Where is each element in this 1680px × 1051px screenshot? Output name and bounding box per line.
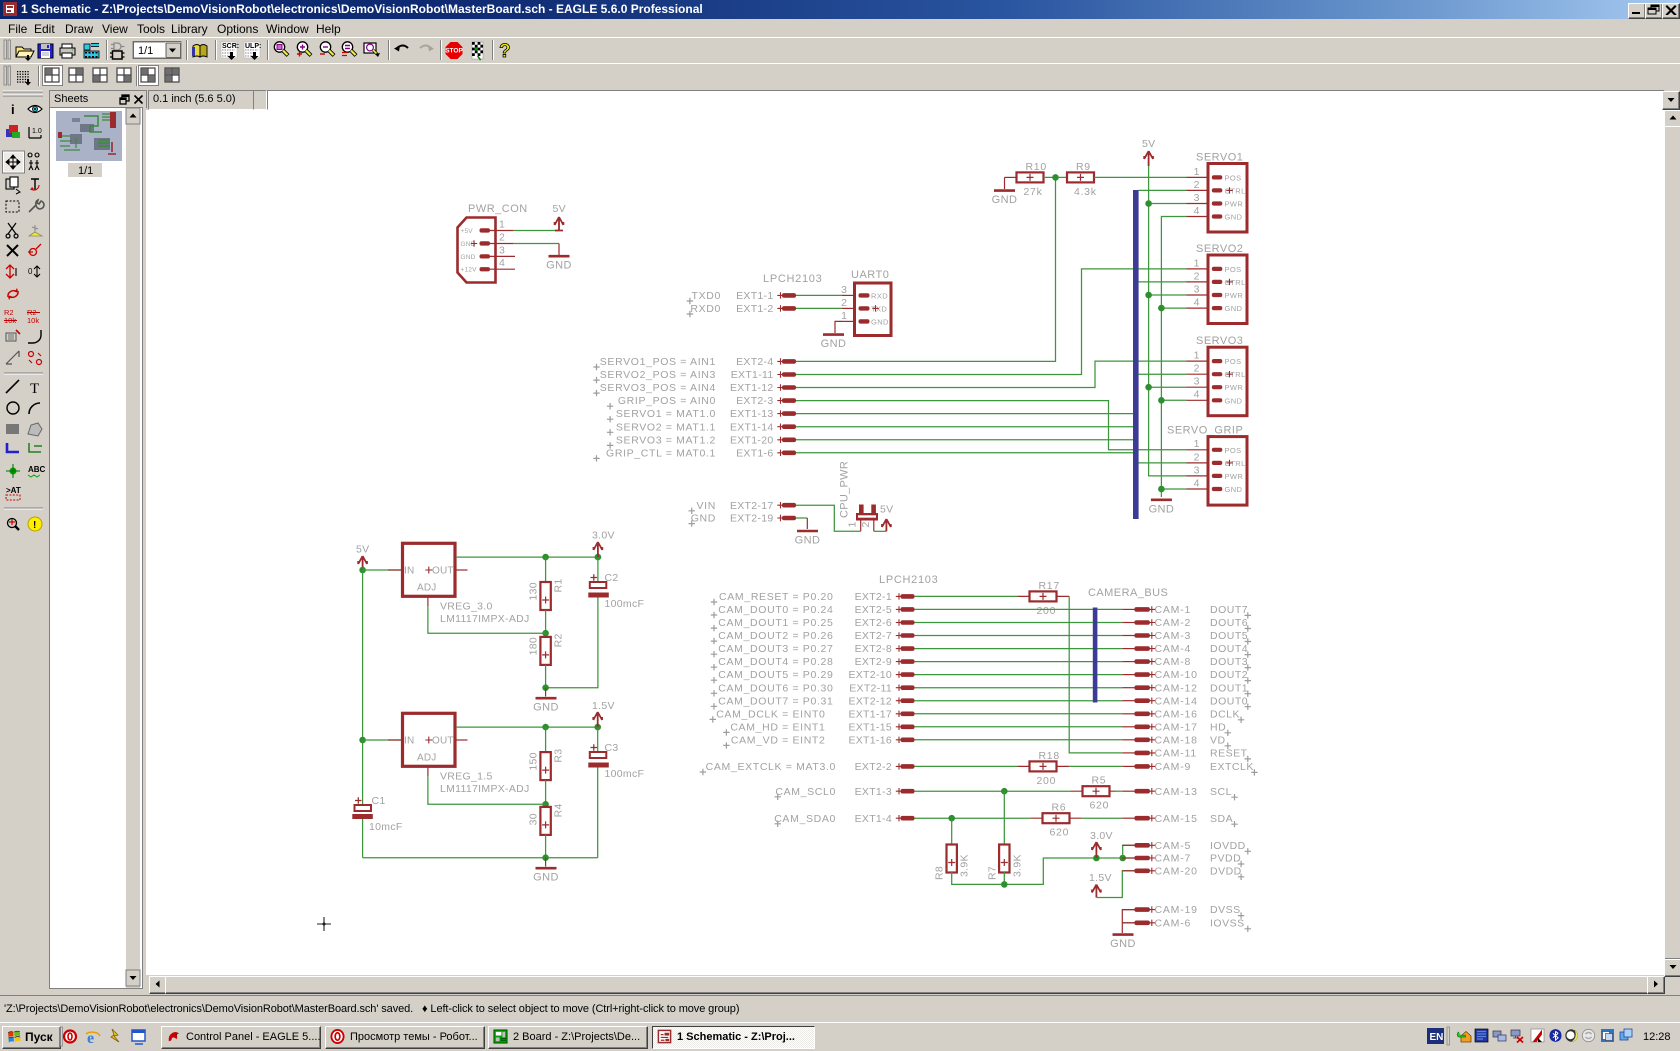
wire camera data row 7 xyxy=(915,687,1123,689)
svg-text:CAM_DOUT0 = P0.24: CAM_DOUT0 = P0.24 xyxy=(718,604,833,616)
wire 5V to SERVO3 PWR xyxy=(1149,386,1187,388)
junction xyxy=(1158,305,1165,312)
junction R3 top xyxy=(542,724,549,731)
svg-text:CAM_SCL0: CAM_SCL0 xyxy=(775,786,836,798)
menu bar xyxy=(0,19,1680,37)
svg-text:SCR:: SCR: xyxy=(222,43,239,50)
svg-text:C1: C1 xyxy=(372,795,386,807)
svg-text:1/1: 1/1 xyxy=(78,165,93,177)
supply 5V (PWR_CON) xyxy=(553,203,566,231)
svg-text:CAM-10: CAM-10 xyxy=(1155,669,1198,681)
PWR_CON pin 3 (GND) xyxy=(461,244,516,260)
svg-text:CPU_PWR: CPU_PWR xyxy=(839,461,851,518)
svg-text:DOUT1: DOUT1 xyxy=(1210,682,1248,694)
svg-text:EXT2-1: EXT2-1 xyxy=(855,591,892,603)
pin CAM-6 (IOVSS) xyxy=(1122,917,1251,932)
svg-text:SERVO3_POS = AIN4: SERVO3_POS = AIN4 xyxy=(600,382,716,394)
pin CAM-5 (IOVDD) xyxy=(1122,840,1251,855)
wire camera data row 9 xyxy=(915,713,1123,715)
wire R17 to CAM-11 RESET xyxy=(1069,596,1122,753)
pin CAM-19 (DVSS) xyxy=(1122,904,1244,919)
svg-text:27k: 27k xyxy=(1024,186,1043,198)
svg-text:620: 620 xyxy=(1090,800,1110,812)
svg-text:PVDD: PVDD xyxy=(1210,853,1241,865)
ground xyxy=(533,698,559,714)
net label TXD0 / pin EXT1-1 xyxy=(687,290,796,304)
svg-text:3: 3 xyxy=(841,284,847,296)
wire SDA to R8 xyxy=(951,818,953,844)
pin CAM-9 (EXTCLK) xyxy=(1122,761,1257,776)
ground (CPU_PWR) xyxy=(795,531,821,547)
svg-text:POS: POS xyxy=(1225,265,1242,274)
svg-text:?: ? xyxy=(499,41,511,62)
svg-text:1: 1 xyxy=(1194,350,1200,362)
svg-text:C3: C3 xyxy=(605,742,619,754)
svg-text:+5V: +5V xyxy=(461,228,474,235)
wire SERVO3_POS xyxy=(796,361,1187,387)
svg-text:PWR: PWR xyxy=(1225,200,1244,209)
svg-text:4: 4 xyxy=(499,257,505,269)
supply 3.0V (camera) xyxy=(1090,830,1113,858)
wire bus to SERVO2 CTRL xyxy=(1139,281,1187,283)
wire R6 pin stubs xyxy=(1031,817,1082,819)
wire to R3 xyxy=(545,727,547,752)
svg-text:2: 2 xyxy=(841,297,847,309)
junction R10/R9 xyxy=(1052,174,1059,181)
svg-text:180: 180 xyxy=(528,637,540,655)
svg-text:EXT1-17: EXT1-17 xyxy=(848,708,892,720)
ground (PWR_CON) xyxy=(558,244,560,256)
supply 5V (servo rail) xyxy=(1142,138,1155,166)
wire R3 to R4 xyxy=(545,780,547,807)
svg-text:30: 30 xyxy=(528,813,540,825)
svg-text:SERVO2: SERVO2 xyxy=(1196,243,1243,255)
svg-text:1: 1 xyxy=(1194,257,1200,269)
svg-text:+12V: +12V xyxy=(461,267,478,274)
svg-text:0: 0 xyxy=(28,267,33,276)
svg-text:T: T xyxy=(30,381,39,397)
resistor R10 xyxy=(1017,161,1047,198)
wire bottom return rail xyxy=(363,768,598,858)
supply 3.0V (regulator) xyxy=(592,530,615,558)
wire SERVO2 MAT1.1 to bus xyxy=(796,426,1133,428)
supply 5V (regulators) xyxy=(356,544,369,571)
svg-text:CAM_EXTCLK = MAT3.0: CAM_EXTCLK = MAT3.0 xyxy=(706,761,836,773)
wire ADJ feedback (VREG_3.0) xyxy=(428,606,546,633)
svg-text:STOP: STOP xyxy=(445,48,463,55)
svg-text:DOUT6: DOUT6 xyxy=(1210,617,1248,629)
svg-text:1: 1 xyxy=(1194,166,1200,178)
resistor R6 xyxy=(1043,802,1070,839)
svg-text:OUT: OUT xyxy=(432,566,454,577)
pin CAM-20 (DVDD) xyxy=(1122,865,1244,880)
svg-text:C2: C2 xyxy=(605,572,619,584)
wire camera data row 2 xyxy=(915,622,1123,624)
wire to R1 xyxy=(545,557,547,582)
svg-text:CAM_HD = EINT1: CAM_HD = EINT1 xyxy=(730,721,825,733)
cursor crosshair xyxy=(317,917,331,931)
net label SERVO3_POS = AIN4 / pin EXT1-12 xyxy=(593,382,796,396)
svg-text:SCL: SCL xyxy=(1210,786,1232,798)
connector PWR_CON xyxy=(458,203,528,283)
svg-text:3.9K: 3.9K xyxy=(1011,854,1023,877)
net label SERVO1_POS = AIN1 / pin EXT2-4 xyxy=(593,356,796,370)
svg-text:LM1117IMPX-ADJ: LM1117IMPX-ADJ xyxy=(440,613,530,625)
svg-text:UART0: UART0 xyxy=(851,269,889,281)
net label CAM_RESET = P0.20 / pin EXT2-1 xyxy=(711,591,915,605)
wire RXD0 xyxy=(796,307,842,309)
svg-text:CAM-2: CAM-2 xyxy=(1155,617,1192,629)
svg-text:EXT2-4: EXT2-4 xyxy=(736,356,773,368)
supply 5V (CPU_PWR) xyxy=(880,504,893,532)
net label SERVO2 = MAT1.1 / pin EXT1-14 xyxy=(607,421,796,435)
svg-text:130: 130 xyxy=(528,582,540,600)
svg-text:VREG_1.5: VREG_1.5 xyxy=(440,770,493,782)
svg-text:VD: VD xyxy=(1210,734,1226,746)
wire EXT2-2 to R18 xyxy=(915,765,1018,767)
svg-text:GRIP_CTL = MAT0.1: GRIP_CTL = MAT0.1 xyxy=(606,447,716,459)
svg-text:EXT2-11: EXT2-11 xyxy=(849,682,892,694)
wire SERVO1_POS xyxy=(796,177,1056,361)
svg-text:CAM-1: CAM-1 xyxy=(1155,604,1192,616)
svg-text:CAM-13: CAM-13 xyxy=(1155,786,1198,798)
ground (servo rail) xyxy=(1149,500,1175,516)
pin CAM-2 (DOUT6) xyxy=(1122,617,1251,632)
svg-text:CAM_DOUT2 = P0.26: CAM_DOUT2 = P0.26 xyxy=(718,630,833,642)
svg-text:RXD: RXD xyxy=(871,291,888,300)
svg-text:150: 150 xyxy=(528,752,540,770)
junction IOVDD/PVDD xyxy=(1119,855,1126,862)
svg-text:EXT1-13: EXT1-13 xyxy=(730,408,774,420)
svg-text:CAM_DOUT1 = P0.25: CAM_DOUT1 = P0.25 xyxy=(718,617,833,629)
wire SERVO3 MAT1.2 to bus xyxy=(796,439,1133,441)
junction R1 top xyxy=(542,554,549,561)
wire R18 pin stubs xyxy=(1018,765,1070,767)
net label SERVO2_POS = AIN3 / pin EXT1-11 xyxy=(593,369,796,383)
svg-text:GND: GND xyxy=(1225,396,1243,405)
svg-text:EXT2-8: EXT2-8 xyxy=(855,643,892,655)
net label SERVO1 = MAT1.0 / pin EXT1-13 xyxy=(607,408,796,422)
wire R2 bottom / C2 return xyxy=(546,598,598,688)
wire camera data row 4 xyxy=(915,648,1123,650)
net label RXD0 / pin EXT1-2 xyxy=(687,303,796,317)
wire +5V to 5V supply xyxy=(513,230,559,232)
canvas top bar xyxy=(148,90,257,110)
wire EXT2-19 to ground xyxy=(796,517,807,519)
junction GND (lower) xyxy=(542,854,549,861)
wire R10-R9 junction xyxy=(1044,176,1068,178)
svg-text:POS: POS xyxy=(1225,173,1242,182)
wire EXT2-1 to R17 xyxy=(915,595,1018,597)
svg-text:EXTCLK: EXTCLK xyxy=(1210,761,1254,773)
svg-text:2: 2 xyxy=(1194,363,1200,375)
wire GND to R10 xyxy=(1005,176,1017,178)
wire GRIP_CTL MAT0.1 to bus xyxy=(796,452,1133,454)
svg-text:4: 4 xyxy=(1194,477,1200,489)
pin CAM-14 (DOUT0) xyxy=(1122,695,1251,710)
junction xyxy=(1158,397,1165,404)
svg-text:EXT2-7: EXT2-7 xyxy=(855,630,892,642)
net label CAM_DOUT7 = P0.31 / pin EXT2-12 xyxy=(711,695,915,709)
connector SERVO_GRIP xyxy=(1167,425,1247,506)
wire ADJ feedback (VREG_1.5) xyxy=(428,776,546,804)
svg-text:2: 2 xyxy=(499,232,505,244)
svg-text:12:28: 12:28 xyxy=(1643,1031,1671,1043)
junction xyxy=(1145,292,1152,299)
wire R6 to CAM-15 xyxy=(1082,817,1123,819)
title bar xyxy=(0,0,1680,19)
svg-text:EXT1-3: EXT1-3 xyxy=(855,786,892,798)
sheets panel xyxy=(47,89,144,993)
left tool palette xyxy=(0,87,47,995)
svg-text:5V: 5V xyxy=(553,203,566,215)
wire VIN to CPU_PWR pin1 xyxy=(796,505,861,531)
svg-text:EXT1-16: EXT1-16 xyxy=(848,734,892,746)
svg-text:GND: GND xyxy=(1110,938,1136,950)
UART0 pin 3 (RXD) xyxy=(841,284,888,301)
resistor R1 xyxy=(528,578,565,610)
resistor R17 xyxy=(1030,580,1060,617)
pin CAM-7 (PVDD) xyxy=(1122,853,1244,868)
svg-text:3: 3 xyxy=(1194,283,1200,295)
connector UART0 xyxy=(851,269,891,336)
junction C3/1.5V xyxy=(594,724,601,731)
net label CAM_DOUT3 = P0.27 / pin EXT2-8 xyxy=(711,643,915,657)
svg-text:OUT: OUT xyxy=(432,736,454,747)
UART0 GND pin wire to ground xyxy=(835,321,842,333)
bus (servo MAT bus) xyxy=(1133,190,1139,519)
wire R17 pin stubs xyxy=(1018,595,1070,597)
wire SERVO2_POS xyxy=(796,269,1187,375)
svg-text:EN: EN xyxy=(1430,1032,1444,1043)
svg-text:GND: GND xyxy=(533,702,559,714)
supply 1.5V (regulator) xyxy=(592,700,615,727)
net label CAM_DOUT1 = P0.25 / pin EXT2-6 xyxy=(711,617,915,631)
net label CAM_SDA0 / pin EXT1-4 xyxy=(774,813,914,827)
svg-text:IN: IN xyxy=(404,566,414,577)
svg-text:2: 2 xyxy=(1194,179,1200,191)
net label CAM_VD = EINT2 / pin EXT1-16 xyxy=(723,734,914,748)
net label CAM_DOUT2 = P0.26 / pin EXT2-7 xyxy=(711,630,915,644)
svg-text:200: 200 xyxy=(1037,775,1057,787)
pin CAM-1 (DOUT7) xyxy=(1122,604,1251,619)
wire GND to SERVO3 GND xyxy=(1161,399,1186,401)
svg-text:100mcF: 100mcF xyxy=(605,768,645,780)
svg-text:RESET: RESET xyxy=(1210,748,1248,760)
pin CAM-16 (DCLK) xyxy=(1122,708,1244,723)
wire DVSS/IOVSS to ground xyxy=(1122,910,1134,933)
net label CAM_DOUT0 = P0.24 / pin EXT2-5 xyxy=(711,604,915,618)
wire 5V to SERVO2 PWR xyxy=(1149,294,1187,296)
svg-text:R1: R1 xyxy=(553,578,565,592)
capacitor C3 xyxy=(588,727,644,780)
connector SERVO3 xyxy=(1187,335,1248,416)
junction SCL/R7 xyxy=(1001,788,1008,795)
svg-text:620: 620 xyxy=(1050,827,1070,839)
wire 1.5V to DVDD xyxy=(1096,871,1134,898)
svg-text:>AT: >AT xyxy=(6,486,21,495)
svg-text:3: 3 xyxy=(499,244,505,256)
net label GRIP_POS = AIN0 / pin EXT2-3 xyxy=(607,395,796,409)
svg-text:CAM-17: CAM-17 xyxy=(1155,721,1198,733)
svg-text:10k: 10k xyxy=(27,316,39,325)
svg-text:CAM_DCLK = EINT0: CAM_DCLK = EINT0 xyxy=(716,708,825,720)
svg-text:IN: IN xyxy=(404,736,414,747)
wire servo GND rail xyxy=(1161,217,1186,498)
connector SERVO1 xyxy=(1187,152,1248,233)
svg-text:SERVO_GRIP: SERVO_GRIP xyxy=(1167,425,1243,437)
svg-text:SERVO3 = MAT1.2: SERVO3 = MAT1.2 xyxy=(616,434,716,446)
svg-text:SDA: SDA xyxy=(1210,813,1233,825)
svg-text:3: 3 xyxy=(1194,192,1200,204)
svg-text:DOUT3: DOUT3 xyxy=(1210,656,1248,668)
wire VREG_1.5 OUT to 1.5V xyxy=(456,726,598,728)
svg-text:CAM-5: CAM-5 xyxy=(1155,840,1192,852)
status bar xyxy=(0,995,1680,1023)
wire R5 pin stubs xyxy=(1071,790,1116,792)
pin CAM-8 (DOUT3) xyxy=(1122,656,1251,671)
net label SERVO3 = MAT1.2 / pin EXT1-20 xyxy=(607,434,796,448)
svg-text:GND: GND xyxy=(992,194,1018,206)
svg-text:CAM-11: CAM-11 xyxy=(1155,748,1198,760)
svg-text:EXT1-1: EXT1-1 xyxy=(736,290,773,302)
net label GND / pin EXT2-19 xyxy=(689,513,797,527)
svg-text:EXT1-20: EXT1-20 xyxy=(730,434,774,446)
svg-text:1.5V: 1.5V xyxy=(592,700,615,712)
svg-text:!: ! xyxy=(33,520,36,531)
toolbar row 1 xyxy=(0,37,1680,64)
svg-text:R8: R8 xyxy=(934,866,946,880)
svg-text:5V: 5V xyxy=(880,504,893,516)
wire camera data row 1 xyxy=(915,608,1123,610)
svg-text:GND: GND xyxy=(461,254,476,261)
pin CAM-15 (SDA) xyxy=(1122,813,1237,828)
net label GRIP_CTL = MAT0.1 / pin EXT1-6 xyxy=(593,447,796,461)
svg-text:POS: POS xyxy=(1225,357,1242,366)
svg-text:4: 4 xyxy=(1194,297,1200,309)
svg-text:CAM-7: CAM-7 xyxy=(1155,853,1192,865)
svg-text:ULP:: ULP: xyxy=(245,43,261,50)
svg-text:R6: R6 xyxy=(1052,802,1067,814)
resistor R2 xyxy=(528,633,565,665)
svg-text:5V: 5V xyxy=(356,544,369,556)
canvas xyxy=(146,110,1664,975)
svg-text:DOUT4: DOUT4 xyxy=(1210,643,1248,655)
capacitor C2 xyxy=(588,557,644,610)
svg-text:CAM_SDA0: CAM_SDA0 xyxy=(774,813,836,825)
svg-text:GND: GND xyxy=(461,241,476,248)
resistor R9 xyxy=(1067,161,1097,198)
pin CAM-12 (DOUT1) xyxy=(1122,682,1251,697)
svg-text:CAM-6: CAM-6 xyxy=(1155,917,1192,929)
junction xyxy=(1145,200,1152,207)
wire bus to SERVO_GRIP CTRL xyxy=(1139,462,1187,464)
svg-text:CAM-4: CAM-4 xyxy=(1155,643,1192,655)
svg-text:GND: GND xyxy=(1225,485,1243,494)
net label CAM_EXTCLK = MAT3.0 / pin EXT2-2 xyxy=(700,761,915,775)
net label CAM_SCL0 / pin EXT1-3 xyxy=(775,786,915,800)
svg-text:CAM_DOUT7 = P0.31: CAM_DOUT7 = P0.31 xyxy=(718,695,833,707)
svg-text:LPCH2103: LPCH2103 xyxy=(879,574,938,586)
wire EXT1-4 SDA xyxy=(915,817,1031,819)
junction GND (upper) xyxy=(542,684,549,691)
svg-text:DVSS: DVSS xyxy=(1210,904,1241,916)
svg-text:3: 3 xyxy=(1194,376,1200,388)
PWR_CON pin 4 (+12V) xyxy=(461,257,516,273)
svg-text:EXT1-6: EXT1-6 xyxy=(736,447,773,459)
svg-text:1.0: 1.0 xyxy=(32,128,42,135)
svg-text:EXT1-2: EXT1-2 xyxy=(736,303,773,315)
net label CAM_DOUT5 = P0.29 / pin EXT2-10 xyxy=(711,669,915,683)
svg-text:2: 2 xyxy=(1194,451,1200,463)
junction ADJ feedback xyxy=(542,630,549,637)
resistor R3 xyxy=(528,749,565,781)
ground (VREG_3.0 divider) xyxy=(545,688,547,697)
svg-text:EXT2-3: EXT2-3 xyxy=(736,395,773,407)
wire R1 to R2 xyxy=(545,610,547,637)
svg-text:1: 1 xyxy=(499,219,505,231)
svg-text:CAM-16: CAM-16 xyxy=(1155,708,1198,720)
voltage regulator VREG_1.5 xyxy=(388,713,530,795)
svg-text:200: 200 xyxy=(1037,605,1057,617)
svg-text:HD: HD xyxy=(1210,721,1226,733)
ground (R10) xyxy=(1004,177,1006,189)
svg-text:LPCH2103: LPCH2103 xyxy=(763,273,822,285)
taskbar xyxy=(0,1022,1680,1051)
svg-text:3.9K: 3.9K xyxy=(959,854,971,877)
svg-text:CAMERA_BUS: CAMERA_BUS xyxy=(1088,587,1168,599)
svg-text:CAM_DOUT6 = P0.30: CAM_DOUT6 = P0.30 xyxy=(718,682,833,694)
svg-text:CAM-12: CAM-12 xyxy=(1155,682,1198,694)
svg-text:SERVO1: SERVO1 xyxy=(1196,152,1243,164)
wire IOVDD branch xyxy=(1123,845,1135,858)
svg-text:CAM-19: CAM-19 xyxy=(1155,904,1198,916)
junction R7 bottom xyxy=(1001,881,1008,888)
svg-text:SERVO3: SERVO3 xyxy=(1196,335,1243,347)
junction ADJ feedback (1.5) xyxy=(542,801,549,808)
svg-text:1: 1 xyxy=(841,310,847,322)
svg-text:DVDD: DVDD xyxy=(1210,865,1242,877)
resistor R8 xyxy=(934,845,971,881)
svg-text:R3: R3 xyxy=(553,749,565,763)
svg-text:POS: POS xyxy=(1225,446,1242,455)
wire to C1 xyxy=(362,740,364,804)
svg-text:i: i xyxy=(11,102,15,117)
pin CAM-17 (HD) xyxy=(1122,721,1231,736)
svg-text:EXT1-4: EXT1-4 xyxy=(855,813,892,825)
net label CAM_DOUT4 = P0.28 / pin EXT2-9 xyxy=(711,656,915,670)
svg-text:CAM-9: CAM-9 xyxy=(1155,761,1192,773)
ground (VREG_1.5 divider) xyxy=(545,858,547,867)
PWR_CON pin 1 (+5V) xyxy=(461,219,514,235)
net label CAM_HD = EINT1 / pin EXT1-15 xyxy=(723,721,914,735)
svg-text:EXT1-14: EXT1-14 xyxy=(730,421,774,433)
ground xyxy=(546,256,572,272)
ground xyxy=(992,191,1018,207)
wire bus to SERVO3 CTRL xyxy=(1139,373,1187,375)
bus CAMERA_BUS xyxy=(1093,608,1098,703)
svg-text:RXD0: RXD0 xyxy=(690,303,721,315)
svg-text:CAM-8: CAM-8 xyxy=(1155,656,1192,668)
svg-text:2: 2 xyxy=(860,522,872,528)
wire R9 to SERVO1 POS xyxy=(1094,176,1187,178)
svg-text:CAM-14: CAM-14 xyxy=(1155,695,1198,707)
ground xyxy=(533,868,559,884)
wire 5V to VREG_1.5 IN xyxy=(363,739,402,741)
svg-text:EXT1-11: EXT1-11 xyxy=(731,369,774,381)
junction 5V/VREG3 IN xyxy=(359,567,366,574)
svg-text:CAM_RESET = P0.20: CAM_RESET = P0.20 xyxy=(719,591,833,603)
